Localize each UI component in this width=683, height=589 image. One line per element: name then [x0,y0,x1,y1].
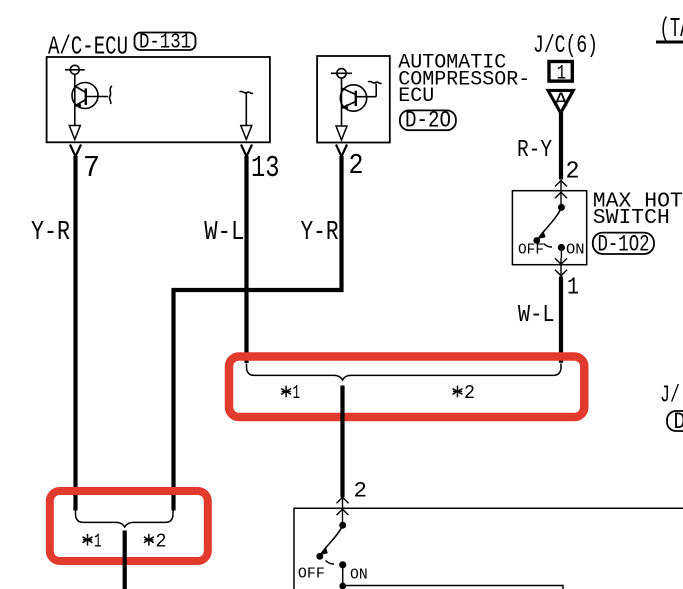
svg-text:D: D [674,409,683,435]
wire Y-R from pin 7 [73,156,77,511]
wire Y-R from pin 2 with corner [174,156,342,511]
joint connector box 1 [549,62,572,86]
svg-text:W-L: W-L [518,302,555,329]
connector label D-131 [135,32,196,55]
MAX HOT SWITCH box [512,191,586,265]
svg-text:1: 1 [567,275,579,302]
footnote *1 (middle) [281,382,300,404]
connector label D-102 [593,232,654,258]
open arrow pin 7 inside box [69,126,80,140]
connector chevrons into MAX HOT SWITCH [555,181,567,208]
connector label D-20 [400,108,456,134]
svg-text:Y-R: Y-R [301,218,339,248]
merged wire down (bottom-left) [123,531,127,589]
svg-text:OFF: OFF [518,243,544,259]
svg-text:W-L: W-L [204,218,244,248]
merged wire down to blower switch [340,386,344,498]
brace merge *1/*2 (middle, W-L wires) [247,364,562,381]
transistor symbol U2 in compressor ECU [331,69,382,126]
red highlight box (middle) [229,357,584,418]
transistor symbol U1 in A/C-ECU [65,65,112,125]
pin fork 2 [336,145,347,157]
connector chevrons out of MAX HOT SWITCH [555,258,567,277]
svg-text:13: 13 [251,151,280,186]
svg-text:ON: ON [350,566,368,583]
svg-text:1: 1 [557,63,566,86]
triangle A [548,90,573,113]
svg-text:J/C(6): J/C(6) [533,31,598,60]
bottom box (blower relay box) [294,508,683,589]
inner box of bottom component [343,586,563,589]
footnote *2 (bottom-left) [144,531,167,553]
svg-text:R-Y: R-Y [517,137,552,164]
footnote *2 (middle) [453,382,476,404]
open arrow pin 13 inside box [241,126,252,140]
wire W-L from max hot switch [559,277,563,363]
footnote *1 (bottom-left) [83,531,102,553]
wire W-L from pin 13 [244,156,248,363]
internal lead to pin 13 [240,91,254,125]
svg-text:2: 2 [566,159,580,186]
pin fork 13 [241,145,252,157]
svg-text:ON: ON [566,243,585,259]
svg-text:ECU: ECU [398,85,434,108]
svg-text:7: 7 [83,151,100,186]
red highlight box (bottom-left) [50,491,208,561]
svg-text:J/: J/ [660,383,680,410]
brace merge *1/*2 (bottom-left, Y-R wires) [76,511,174,528]
svg-text:1: 1 [94,531,102,553]
svg-text:D-1O2: D-1O2 [598,232,650,258]
svg-text:D-131: D-131 [139,32,191,55]
svg-text:2: 2 [156,531,167,553]
svg-text:Y-R: Y-R [31,218,70,248]
open arrow pin 2 inside box [336,126,347,140]
svg-text:2: 2 [349,149,364,182]
A/C-ECU box D-131 [47,57,270,142]
switch S2 (bottom) [316,522,346,589]
svg-text:A: A [554,90,568,112]
heading underline [656,41,683,44]
wire R-Y from J/C [559,112,563,180]
pin fork 7 [70,145,81,157]
svg-text:OFF: OFF [298,566,325,583]
connector label (D... right edge [667,409,683,435]
svg-text:2: 2 [464,382,475,404]
svg-text:SWITCH: SWITCH [593,207,670,230]
switch S1 [533,204,565,258]
AUTOMATIC COMPRESSOR-ECU box [317,56,390,143]
svg-text:1: 1 [293,382,301,404]
svg-text:D-2O: D-2O [405,108,451,134]
connector chevrons into bottom box [337,497,349,525]
svg-text:2: 2 [354,479,368,504]
